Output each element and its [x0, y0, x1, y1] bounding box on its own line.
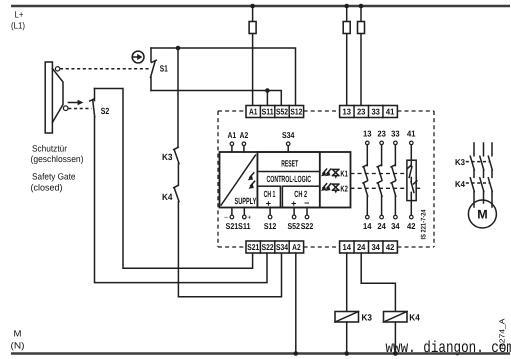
svg-text:A2: A2	[240, 130, 249, 140]
contact K4 aux (NO)	[174, 185, 179, 201]
wire S1 bottom line to S11 and S52	[151, 91, 281, 106]
motor M1	[468, 200, 496, 228]
svg-text:24: 24	[357, 242, 366, 252]
motor branch phase L3	[488, 143, 492, 207]
unit pin S22	[306, 208, 308, 216]
svg-text:S12: S12	[290, 107, 302, 117]
svg-text:K2: K2	[340, 183, 348, 193]
door hinge contact bottom	[63, 106, 68, 111]
svg-text:23: 23	[357, 107, 366, 117]
unit pin S52	[293, 208, 295, 216]
contact column 23-24	[377, 128, 386, 231]
terminal strip A1 S11 S52 S12	[246, 106, 304, 118]
rail M (N) bottom	[11, 352, 510, 354]
motor branch phase L1	[470, 143, 474, 207]
svg-text:K4: K4	[162, 192, 173, 202]
svg-text:L+: L+	[15, 10, 24, 20]
svg-text:S21: S21	[226, 221, 239, 231]
svg-text:Schutztür: Schutztür	[32, 144, 67, 154]
junction on L+ at F2	[344, 4, 349, 9]
relay unit U1 box	[220, 152, 351, 208]
wire S2 top to S21	[95, 89, 253, 269]
svg-text:K3: K3	[362, 312, 373, 322]
svg-text:S12: S12	[264, 221, 277, 231]
svg-text:34: 34	[371, 242, 380, 252]
mech link door to S2 (dashed)	[68, 108, 91, 110]
svg-text:K4: K4	[455, 179, 465, 189]
svg-text:K3: K3	[455, 157, 465, 167]
mech link K2 (dashed)	[351, 187, 407, 189]
wire fuse F2 drop to 13	[346, 6, 348, 106]
supply section divider	[256, 152, 258, 208]
svg-text:34: 34	[391, 221, 400, 231]
unit pin S34	[287, 146, 289, 152]
svg-text:41: 41	[407, 128, 416, 138]
svg-text:S21: S21	[247, 242, 259, 252]
terminal strip 13 23 33 41	[340, 106, 398, 118]
coil K4	[384, 312, 420, 323]
logic section right divider	[319, 152, 321, 208]
svg-text:S11: S11	[262, 107, 274, 117]
fuse F3	[358, 22, 365, 34]
CH2 box	[282, 186, 319, 207]
relay K1 indicator	[321, 169, 348, 179]
svg-text:S52: S52	[287, 221, 300, 231]
wire K4 aux to S34	[178, 202, 281, 297]
terminal strip S21 S22 S34 A2	[246, 241, 304, 253]
terminal strip 14 24 34 42	[340, 241, 398, 253]
svg-text:RESET: RESET	[281, 158, 298, 168]
door symbol (safety gate)	[45, 62, 63, 133]
mech link K1 (dashed)	[351, 173, 407, 175]
svg-text:14: 14	[363, 221, 372, 231]
junction S1 bottom / S11	[265, 88, 270, 93]
contact column 33-34	[391, 128, 400, 231]
svg-text:−: −	[224, 215, 228, 222]
relay K2 indicator	[321, 183, 348, 193]
unit pin S11	[243, 208, 245, 216]
svg-text:K4: K4	[409, 312, 420, 322]
wire coil K3 to rail	[346, 322, 348, 354]
svg-text:(closed): (closed)	[31, 183, 63, 193]
contact column 41-42 (NC in box)	[407, 128, 417, 231]
wire A2 to M rail	[295, 253, 297, 354]
svg-text:S1: S1	[160, 64, 168, 74]
svg-text:S34: S34	[282, 130, 295, 140]
svg-text:(N): (N)	[11, 341, 25, 351]
junction on L+ at F3	[359, 4, 364, 9]
wire fuse F3 drop to 23	[360, 6, 362, 106]
svg-text:(L1): (L1)	[11, 21, 25, 31]
wire S2 bottom to S22	[95, 117, 268, 283]
actuation arrow at S2	[68, 100, 83, 105]
svg-text:24: 24	[377, 221, 386, 231]
svg-text:A1: A1	[249, 107, 258, 117]
door hinge contact top	[55, 67, 59, 71]
fuse F2	[343, 22, 350, 34]
svg-text:42: 42	[407, 221, 416, 231]
svg-text:CONTROL-LOGIC: CONTROL-LOGIC	[267, 174, 312, 184]
unit pin S12	[269, 208, 271, 216]
svg-text:M: M	[14, 329, 22, 339]
svg-text:S11: S11	[238, 221, 251, 231]
switch S1 (NC, actuated)	[151, 48, 157, 91]
svg-text:S22: S22	[262, 242, 274, 252]
svg-text:13: 13	[343, 107, 352, 117]
svg-text:33: 33	[391, 128, 400, 138]
svg-text:14: 14	[343, 242, 352, 252]
svg-text:+: +	[247, 215, 251, 222]
svg-text:41: 41	[386, 107, 395, 117]
svg-text:−: −	[304, 198, 309, 208]
svg-text:A2: A2	[292, 242, 301, 252]
svg-text:M: M	[477, 208, 487, 222]
svg-text:S52: S52	[276, 107, 288, 117]
motor branch phase L2	[480, 143, 484, 203]
svg-text:Safety Gate: Safety Gate	[32, 172, 76, 182]
wire 24 to coil K4	[361, 253, 395, 312]
svg-text:42: 42	[386, 242, 395, 252]
fuse F1	[249, 22, 256, 34]
unit pin A2	[243, 146, 245, 152]
unit pin A1	[231, 146, 233, 152]
wire 14 to coil K3	[346, 253, 348, 312]
wire fuse F1 drop to A1	[252, 6, 254, 106]
svg-text:K3: K3	[162, 152, 173, 162]
wire branch to S11	[266, 91, 268, 106]
svg-text:S34: S34	[276, 242, 288, 252]
contact K3 aux (NO)	[174, 147, 179, 185]
unit pin S21	[231, 208, 233, 216]
svg-text:CH 1: CH 1	[264, 189, 276, 199]
svg-text:S22: S22	[301, 221, 314, 231]
svg-text:K1: K1	[340, 169, 348, 179]
svg-text:A1: A1	[228, 130, 237, 140]
RESET box	[257, 152, 319, 172]
dashed unit outline	[218, 111, 434, 247]
actuation direction symbol (circled arrow) near S1	[132, 51, 144, 63]
svg-text:R274_A: R274_A	[498, 318, 507, 349]
svg-text:13: 13	[363, 128, 372, 138]
svg-text:33: 33	[371, 107, 380, 117]
supply transformer diagonal	[221, 155, 255, 205]
wire coil K4 to rail	[394, 322, 396, 354]
contact column 13-14	[363, 128, 372, 231]
rail L+	[11, 5, 510, 7]
svg-text:23: 23	[377, 128, 386, 138]
switch S2 (NC, door contact)	[90, 89, 95, 117]
wire S1 top line to S12	[151, 48, 296, 106]
svg-text:(geschlossen): (geschlossen)	[31, 154, 84, 164]
svg-text:IS 221-7-24: IS 221-7-24	[420, 209, 427, 239]
junction S1 top / K3K4 chain	[176, 46, 181, 51]
mech link door to S1 (dashed)	[60, 68, 150, 70]
junction on L+ at F1	[250, 4, 255, 9]
CH1 box	[257, 186, 280, 207]
wire K3K4 chain from S1 junction	[177, 48, 179, 147]
coil K3	[335, 312, 372, 323]
svg-text:S2: S2	[101, 106, 110, 116]
svg-text:SUPPLY: SUPPLY	[235, 196, 257, 206]
supply isolation arrows	[248, 173, 255, 189]
